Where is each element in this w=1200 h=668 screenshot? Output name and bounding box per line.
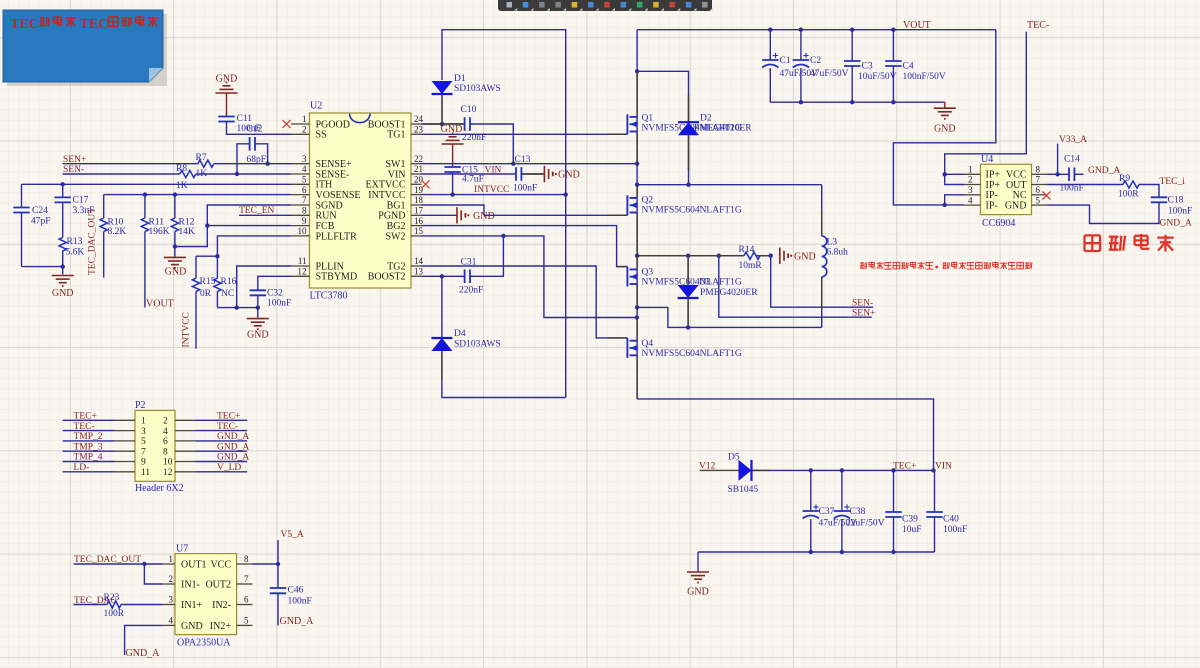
capacitor C4 100nF/50V bbox=[885, 30, 946, 103]
svg-text:7: 7 bbox=[1036, 175, 1041, 185]
svg-text:10uF: 10uF bbox=[902, 525, 922, 535]
svg-text:TEC+: TEC+ bbox=[893, 462, 916, 472]
wire SGND pin7 to ground node bbox=[175, 205, 291, 247]
capacitor C46 100nF bbox=[270, 586, 312, 626]
capacitor C13 100nF (VIN-GND) bbox=[422, 167, 545, 195]
ground below cap bank bbox=[934, 102, 956, 134]
svg-text:TEC-: TEC- bbox=[217, 422, 238, 432]
svg-text:100nF: 100nF bbox=[943, 525, 967, 535]
svg-text:C39: C39 bbox=[902, 515, 918, 525]
svg-text:Q1: Q1 bbox=[642, 114, 654, 124]
wire SENSE+ row bbox=[63, 162, 291, 166]
svg-text:2: 2 bbox=[968, 175, 973, 185]
svg-text:SS: SS bbox=[316, 130, 327, 141]
svg-text:IP-: IP- bbox=[986, 201, 998, 212]
wire SENSE- row bbox=[63, 172, 291, 176]
svg-text:SB1045: SB1045 bbox=[728, 485, 759, 495]
wire INTVCC row pin19 bbox=[422, 194, 566, 196]
resistor R16 NC bbox=[214, 256, 237, 307]
wire FCB pin9 joins bbox=[205, 223, 291, 227]
svg-text:PLLFLTR: PLLFLTR bbox=[316, 231, 358, 242]
wire BG2 pin16 to Q3 gate bbox=[422, 226, 628, 267]
wire PLLIN pin11 bbox=[237, 266, 291, 308]
wire current sense row bbox=[637, 254, 773, 258]
svg-text:13: 13 bbox=[414, 267, 424, 277]
svg-text:TG1: TG1 bbox=[387, 130, 405, 141]
svg-text:TEC_i: TEC_i bbox=[1160, 177, 1186, 187]
svg-text:3: 3 bbox=[169, 595, 174, 605]
wire TG1 row to Q1 gate bbox=[422, 133, 628, 135]
transistor Q2 NVMFS5C604NLAFT1G bbox=[627, 195, 742, 215]
diode D5 SB1045 bbox=[728, 453, 759, 496]
note: analog circuit (Chinese) bbox=[1084, 234, 1173, 252]
svg-text:TMP_2: TMP_2 bbox=[74, 432, 103, 442]
svg-text:5: 5 bbox=[1036, 195, 1041, 205]
svg-text:8: 8 bbox=[1036, 165, 1041, 175]
svg-text:R10: R10 bbox=[108, 218, 124, 228]
wire OUT pin7 to R9 bbox=[1047, 184, 1123, 186]
ground below R13 bbox=[52, 276, 74, 300]
capacitor C37 47uF/50V bbox=[803, 470, 858, 552]
svg-text:LTC3780: LTC3780 bbox=[310, 291, 348, 302]
svg-text:VIN: VIN bbox=[935, 462, 952, 472]
resistor R15 0R bbox=[192, 256, 215, 299]
svg-text:TMP_4: TMP_4 bbox=[74, 453, 103, 463]
svg-text:STBYMD: STBYMD bbox=[316, 272, 358, 283]
svg-text:220nF: 220nF bbox=[459, 286, 483, 296]
dark pin segments (Altium pin colour) bbox=[423, 71, 822, 470]
wire VOSENSE row bbox=[104, 192, 291, 196]
svg-text:C46: C46 bbox=[288, 586, 304, 596]
svg-text:IN1+: IN1+ bbox=[181, 600, 203, 611]
capacitor C11 100nF bbox=[218, 114, 260, 134]
ground sideways at R14 bbox=[780, 248, 816, 264]
svg-text:7: 7 bbox=[141, 447, 146, 457]
svg-text:TEC: TEC bbox=[10, 17, 39, 32]
svg-text:22: 22 bbox=[414, 154, 423, 164]
svg-text:12: 12 bbox=[163, 468, 173, 478]
resistor R7 1K bbox=[196, 153, 214, 179]
wire R16 bottom to GND/C32 node bbox=[217, 305, 260, 309]
svg-text:5: 5 bbox=[244, 616, 249, 626]
svg-text:GND: GND bbox=[1005, 201, 1027, 212]
diode D2 PMEG4020ER bbox=[637, 71, 752, 187]
transistor Q3 NVMFS5C604NLAFT1G bbox=[627, 267, 742, 288]
svg-text:TEC+: TEC+ bbox=[74, 412, 97, 422]
svg-text:VCC: VCC bbox=[210, 559, 231, 570]
svg-text:C17: C17 bbox=[73, 196, 89, 206]
svg-text:10: 10 bbox=[163, 458, 173, 468]
svg-text:24: 24 bbox=[414, 114, 424, 124]
svg-text:GND: GND bbox=[52, 288, 74, 299]
U2 pin names and numbers bbox=[291, 114, 424, 283]
svg-text:4.7uF: 4.7uF bbox=[462, 175, 484, 185]
capacitor C15 4.7uF bbox=[444, 166, 484, 197]
svg-text:L3: L3 bbox=[827, 238, 838, 248]
svg-text:C13: C13 bbox=[515, 155, 531, 165]
svg-text:9: 9 bbox=[302, 216, 307, 226]
svg-text:C10: C10 bbox=[461, 105, 477, 115]
capacitor C32 100nF bbox=[250, 276, 292, 308]
svg-text:2: 2 bbox=[302, 125, 307, 135]
svg-text:D4: D4 bbox=[454, 329, 466, 339]
svg-text:5: 5 bbox=[141, 437, 146, 447]
wire TEC- to U4 IP+ bbox=[943, 32, 1027, 185]
svg-text:22uF/50V: 22uF/50V bbox=[846, 519, 885, 529]
svg-text:100nF: 100nF bbox=[288, 597, 312, 607]
capacitor C1 47uF/50V bbox=[762, 30, 818, 103]
svg-text:5.6K: 5.6K bbox=[66, 248, 85, 258]
svg-text:11: 11 bbox=[298, 256, 307, 266]
resistor R14 10mR bbox=[739, 245, 763, 271]
svg-text:6: 6 bbox=[302, 185, 307, 195]
ground sideways at C13 bbox=[544, 166, 579, 182]
svg-text:GND: GND bbox=[181, 621, 203, 632]
wire SW1 row bbox=[422, 162, 640, 166]
svg-text:INTVCC: INTVCC bbox=[474, 185, 509, 195]
svg-text:V5_A: V5_A bbox=[281, 530, 304, 540]
op-amp U2 controller LTC3780 bbox=[310, 101, 412, 302]
svg-text:OPA2350UA: OPA2350UA bbox=[177, 638, 231, 649]
resistor R12 14K bbox=[171, 195, 195, 249]
svg-text:TEC: TEC bbox=[80, 17, 109, 32]
transistor Q1 NVMFS5C604NLAFT1G bbox=[627, 114, 742, 135]
wire TEC+/VIN rail bbox=[752, 468, 936, 472]
ground at bottom rail bbox=[687, 572, 709, 598]
capacitor C10 220nF (BOOST1-SW1) bbox=[422, 105, 514, 164]
wire PGND pin17 with sideways ground bbox=[422, 207, 628, 223]
svg-text:GND: GND bbox=[473, 211, 495, 222]
resistor R9 100R bbox=[1118, 174, 1139, 200]
svg-text:6.8uh: 6.8uh bbox=[827, 248, 849, 258]
svg-text:Header 6X2: Header 6X2 bbox=[135, 483, 184, 494]
svg-text:R16: R16 bbox=[221, 277, 237, 287]
svg-text:18: 18 bbox=[414, 195, 424, 205]
connector P2 Header 6X2 bbox=[135, 400, 184, 494]
resistor R11 196K bbox=[141, 195, 169, 308]
svg-text:C31: C31 bbox=[461, 258, 477, 268]
svg-text:8: 8 bbox=[163, 447, 168, 457]
wire cap bank bottom rail bbox=[770, 100, 945, 104]
svg-text:CC6904: CC6904 bbox=[982, 218, 1015, 229]
svg-text:INTVCC: INTVCC bbox=[182, 312, 192, 347]
wire TG2 pin14 to Q4 gate bbox=[422, 266, 628, 338]
svg-text:NVMFS5C604NLAFT1G: NVMFS5C604NLAFT1G bbox=[642, 349, 742, 359]
capacitor C17 3.3nF bbox=[55, 184, 95, 237]
svg-text:C3: C3 bbox=[862, 62, 873, 72]
svg-text:100nF/50V: 100nF/50V bbox=[903, 72, 946, 82]
svg-text:47uF/50V: 47uF/50V bbox=[810, 69, 849, 79]
svg-text:IN2-: IN2- bbox=[212, 600, 231, 611]
svg-text:9: 9 bbox=[141, 458, 146, 468]
resistor R23 100R bbox=[74, 593, 163, 619]
svg-text:4: 4 bbox=[163, 427, 168, 437]
svg-text:GND: GND bbox=[687, 587, 709, 598]
svg-text:GND: GND bbox=[934, 124, 956, 135]
svg-text:V_LD: V_LD bbox=[217, 463, 241, 473]
svg-text:68pF: 68pF bbox=[247, 155, 267, 165]
svg-text:C40: C40 bbox=[943, 515, 959, 525]
svg-text:R15: R15 bbox=[200, 277, 216, 287]
svg-text:GND_A: GND_A bbox=[126, 648, 161, 659]
ground above C11 (flipped) bbox=[216, 74, 238, 117]
U4 pins bbox=[964, 165, 1047, 212]
svg-text:6: 6 bbox=[1036, 185, 1041, 195]
svg-text:IN2+: IN2+ bbox=[210, 621, 232, 632]
svg-text:SW2: SW2 bbox=[386, 231, 406, 242]
wire R9 to C18 bbox=[1139, 185, 1159, 198]
svg-text:C18: C18 bbox=[1168, 196, 1184, 206]
wire Q4 source to VIN riser bbox=[637, 399, 933, 471]
ground below C32 bbox=[247, 308, 269, 341]
resistor R10 8.2K bbox=[100, 195, 126, 278]
capacitor C14 100nF labels bbox=[1060, 155, 1084, 194]
svg-text:15: 15 bbox=[414, 226, 424, 236]
svg-text:19: 19 bbox=[414, 185, 424, 195]
svg-text:17: 17 bbox=[414, 206, 424, 216]
svg-text:U7: U7 bbox=[176, 544, 188, 555]
svg-text:TEC-: TEC- bbox=[74, 422, 95, 432]
svg-text:100R: 100R bbox=[1118, 190, 1139, 200]
inductor L3 6.8uh bbox=[822, 185, 848, 328]
svg-text:20: 20 bbox=[414, 175, 424, 185]
P2 pins and wires bbox=[63, 412, 250, 479]
wire VCC pin8 / V5_A / C46 bbox=[252, 540, 280, 588]
svg-text:12: 12 bbox=[298, 267, 307, 277]
svg-text:C24: C24 bbox=[32, 206, 48, 216]
svg-text:11: 11 bbox=[141, 468, 150, 478]
ground below R12 bbox=[164, 247, 186, 278]
svg-text:3: 3 bbox=[141, 427, 146, 437]
svg-text:7: 7 bbox=[244, 574, 249, 584]
svg-text:C1: C1 bbox=[780, 56, 791, 66]
svg-text:100R: 100R bbox=[104, 609, 125, 619]
wire INTVCC top link bbox=[440, 30, 568, 398]
svg-text:1: 1 bbox=[141, 417, 146, 427]
svg-text:100nF: 100nF bbox=[1168, 207, 1192, 217]
svg-text:23: 23 bbox=[414, 125, 424, 135]
ground above C15 (flipped) bbox=[441, 124, 464, 167]
svg-text:SD103AWS: SD103AWS bbox=[454, 84, 501, 94]
wire VOUT top rail to Q1 drain bbox=[637, 28, 996, 32]
svg-text:SEN+: SEN+ bbox=[852, 309, 875, 319]
svg-text:TEC_DAC_OUT: TEC_DAC_OUT bbox=[88, 208, 98, 275]
op-amp U7 OPA2350UA bbox=[175, 544, 237, 649]
svg-text:C4: C4 bbox=[903, 62, 914, 72]
svg-text:R12: R12 bbox=[179, 218, 195, 228]
svg-text:IN1-: IN1- bbox=[181, 579, 200, 590]
wire VOUT to U4 IP- bbox=[893, 30, 995, 207]
svg-text:10uF/50V: 10uF/50V bbox=[858, 72, 897, 82]
svg-text:R14: R14 bbox=[739, 245, 755, 255]
wire bottom rail to GND bbox=[698, 550, 935, 572]
svg-text:1: 1 bbox=[968, 165, 973, 175]
svg-text:GND: GND bbox=[558, 170, 580, 181]
svg-text:3: 3 bbox=[302, 154, 307, 164]
svg-text:D1: D1 bbox=[454, 74, 466, 84]
capacitor C3 10uF/50V bbox=[844, 30, 897, 103]
wire V12 to D5 bbox=[700, 469, 739, 471]
wire C18 to U4 GND pin5 bbox=[1047, 202, 1159, 223]
svg-text:14K: 14K bbox=[179, 227, 196, 237]
svg-text:2: 2 bbox=[163, 417, 168, 427]
svg-text:GND_A: GND_A bbox=[217, 432, 249, 442]
svg-text:D5: D5 bbox=[728, 453, 740, 463]
svg-text:NVMFS5C604NLAFT1G: NVMFS5C604NLAFT1G bbox=[642, 206, 742, 216]
capacitor C38 22uF/50V bbox=[834, 470, 885, 552]
svg-text:OUT2: OUT2 bbox=[205, 579, 231, 590]
svg-text:GND_A: GND_A bbox=[217, 442, 249, 452]
capacitor C39 10uF bbox=[885, 470, 921, 552]
capacitor C40 100nF bbox=[926, 470, 967, 552]
svg-text:GND_A: GND_A bbox=[1088, 166, 1120, 176]
svg-text:VOUT: VOUT bbox=[903, 20, 931, 31]
wire main switch column bbox=[635, 30, 639, 399]
wire SEN- branch bbox=[771, 256, 874, 308]
capacitor C18 100nF bbox=[1151, 196, 1192, 217]
resistor R8 1K bbox=[176, 164, 196, 191]
svg-text:P2: P2 bbox=[135, 400, 146, 411]
svg-text:1: 1 bbox=[169, 554, 174, 564]
wire SEN+ branch bbox=[719, 256, 872, 318]
op-amp U4 current sensor CC6904 bbox=[981, 154, 1032, 229]
transistor Q4 NVMFS5C604NLAFT1G bbox=[627, 338, 742, 359]
svg-text:LD-: LD- bbox=[74, 463, 90, 473]
capacitor C12 68pF bbox=[237, 125, 268, 175]
svg-text:GND_A: GND_A bbox=[1160, 219, 1192, 229]
svg-text:100nF: 100nF bbox=[513, 184, 537, 194]
svg-text:TMP_3: TMP_3 bbox=[74, 442, 103, 452]
svg-text:Q3: Q3 bbox=[642, 268, 654, 278]
title banner TEC drive block bbox=[3, 10, 167, 86]
capacitor C2 47uF/50V bbox=[793, 30, 849, 103]
diode D4 SD103AWS bbox=[431, 276, 565, 397]
U7 pins bbox=[162, 554, 252, 632]
svg-text:V33_A: V33_A bbox=[1059, 135, 1087, 145]
wire SW2 pin15 bbox=[422, 234, 640, 320]
svg-text:SEN-: SEN- bbox=[852, 298, 873, 308]
svg-text:47pF: 47pF bbox=[31, 217, 51, 227]
wire TEC_DAC_OUT to OUT1 and feedback bbox=[74, 562, 163, 584]
capacitor C31 220nF (BOOST2-SW2) bbox=[422, 236, 504, 296]
svg-text:8.2K: 8.2K bbox=[108, 227, 127, 237]
svg-text:3: 3 bbox=[968, 185, 973, 195]
svg-text:4: 4 bbox=[302, 164, 307, 174]
title text TEC drive and current sampling bbox=[10, 16, 158, 32]
svg-text:196K: 196K bbox=[149, 227, 170, 237]
svg-text:SD103AWS: SD103AWS bbox=[454, 340, 501, 350]
svg-text:4: 4 bbox=[169, 616, 174, 626]
svg-text:10: 10 bbox=[298, 226, 308, 236]
wire VCC pin8 with V33_A bbox=[1047, 144, 1084, 182]
svg-text:0R: 0R bbox=[200, 289, 212, 299]
svg-text:D2: D2 bbox=[700, 114, 712, 124]
svg-text:R7: R7 bbox=[196, 153, 207, 163]
svg-text:C32: C32 bbox=[267, 289, 283, 299]
wire BG1 pin18 jog bbox=[422, 205, 485, 215]
svg-text:6: 6 bbox=[163, 437, 168, 447]
svg-text:GND: GND bbox=[247, 330, 269, 341]
svg-text:PMEG4020ER: PMEG4020ER bbox=[700, 288, 758, 298]
wire RUN pin8 TEC_EN bbox=[239, 214, 291, 216]
svg-text:5: 5 bbox=[302, 175, 307, 185]
svg-text:R11: R11 bbox=[149, 218, 165, 228]
svg-text:R8: R8 bbox=[176, 164, 187, 174]
svg-text:4: 4 bbox=[968, 195, 973, 205]
diode D3 PMEG4020ER bbox=[678, 256, 759, 330]
svg-text:R13: R13 bbox=[67, 237, 83, 247]
svg-text:GND_A: GND_A bbox=[217, 453, 249, 463]
svg-text:VOSENSE: VOSENSE bbox=[316, 190, 361, 201]
note: inductor core suggestion (Chinese) bbox=[860, 262, 1032, 269]
svg-text:GND: GND bbox=[165, 267, 187, 278]
svg-text:U4: U4 bbox=[981, 154, 993, 165]
svg-text:100nF: 100nF bbox=[267, 299, 291, 309]
wire Q3 source branch bbox=[637, 307, 822, 327]
svg-text:Q4: Q4 bbox=[642, 339, 654, 349]
wire L3 row (SW1 to inductor) bbox=[637, 184, 822, 186]
svg-text:1: 1 bbox=[302, 114, 307, 124]
svg-text:BOOST2: BOOST2 bbox=[368, 272, 406, 283]
svg-text:R23: R23 bbox=[104, 593, 120, 603]
svg-text:C14: C14 bbox=[1064, 155, 1080, 165]
svg-text:8: 8 bbox=[244, 554, 249, 564]
wire PLLFLTR pin10 bbox=[196, 236, 291, 259]
no-connect X on U2 pin 20 bbox=[422, 180, 430, 188]
svg-text:OUT1: OUT1 bbox=[181, 559, 207, 570]
svg-text:21: 21 bbox=[414, 164, 423, 174]
svg-text:D3: D3 bbox=[699, 278, 711, 288]
svg-text:C38: C38 bbox=[850, 507, 866, 517]
svg-text:R9: R9 bbox=[1119, 174, 1130, 184]
svg-text:GND_A: GND_A bbox=[280, 616, 315, 627]
no-connect X on U2 pin 1 bbox=[283, 120, 291, 128]
svg-text:INTVCC: INTVCC bbox=[368, 190, 406, 201]
diode D1 SD103AWS bbox=[432, 74, 501, 94]
wire SS net C11 to pin2 bbox=[227, 122, 292, 135]
svg-text:7: 7 bbox=[302, 195, 307, 205]
svg-text:14: 14 bbox=[414, 256, 424, 266]
svg-text:C11: C11 bbox=[237, 114, 253, 124]
svg-text:16: 16 bbox=[414, 216, 424, 226]
svg-text:NC: NC bbox=[221, 289, 234, 299]
wire ITH row bbox=[22, 182, 292, 186]
resistor R13 5.6K bbox=[59, 237, 84, 275]
svg-text:GND: GND bbox=[441, 124, 463, 135]
net stub INTVCC below R15 bbox=[195, 291, 197, 348]
svg-text:C12: C12 bbox=[247, 125, 263, 135]
no-connect X on U4 pin 6 bbox=[1043, 192, 1051, 200]
svg-text:U2: U2 bbox=[310, 101, 322, 112]
svg-text:TEC+: TEC+ bbox=[217, 412, 240, 422]
capacitor C24 47pF bbox=[13, 184, 62, 266]
svg-text:Q2: Q2 bbox=[642, 196, 654, 206]
svg-text:10mR: 10mR bbox=[739, 261, 763, 271]
svg-text:PMEG4020ER: PMEG4020ER bbox=[694, 124, 752, 134]
svg-text:TEC-: TEC- bbox=[1027, 20, 1049, 31]
svg-text:C37: C37 bbox=[819, 507, 835, 517]
floating toolbar fragment bbox=[498, 0, 713, 11]
svg-text:C2: C2 bbox=[810, 56, 821, 66]
wire U7 GND pin4 bbox=[125, 625, 163, 655]
svg-text:VOUT: VOUT bbox=[146, 299, 174, 310]
svg-text:GND: GND bbox=[794, 252, 816, 263]
svg-text:8: 8 bbox=[302, 206, 307, 216]
svg-text:6: 6 bbox=[244, 595, 249, 605]
svg-text:1K: 1K bbox=[176, 181, 188, 191]
svg-text:2: 2 bbox=[169, 574, 174, 584]
